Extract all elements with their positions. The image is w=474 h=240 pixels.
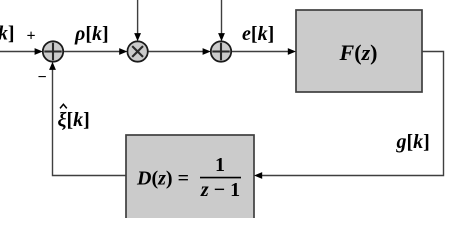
svg-text:1: 1 <box>215 154 225 176</box>
svg-text:ξ[k]: ξ[k] <box>58 109 90 131</box>
svg-text:−: − <box>37 69 46 86</box>
svg-text:g[k]: g[k] <box>396 131 430 153</box>
svg-text:F(z): F(z) <box>339 40 378 65</box>
svg-text:ρ[k]: ρ[k] <box>74 23 109 45</box>
svg-text:z − 1: z − 1 <box>200 179 240 201</box>
svg-text:+: + <box>26 28 35 45</box>
svg-text:k]: k] <box>0 23 15 45</box>
svg-text:e[k]: e[k] <box>242 23 274 45</box>
svg-text:D(z) =: D(z) = <box>136 168 189 190</box>
